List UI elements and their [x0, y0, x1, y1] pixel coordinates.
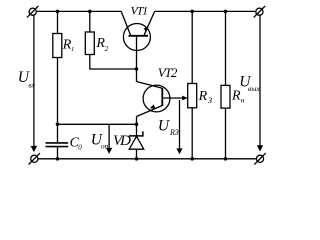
zener diode VD: [129, 124, 144, 159]
node VT1 base / VT2 collector: [135, 67, 139, 71]
svg-text:R: R: [231, 88, 241, 103]
svg-text:VD: VD: [113, 133, 131, 149]
arrow Uвх: [31, 15, 38, 152]
resistor R2: [85, 11, 136, 69]
resistor R3: [188, 11, 197, 158]
svg-text:VT1: VT1: [131, 4, 148, 18]
arrow Uоп: [106, 125, 112, 154]
svg-text:R: R: [198, 89, 208, 104]
node RH bottom: [224, 157, 228, 161]
node VD top: [135, 123, 139, 127]
arrow Uвых: [257, 15, 263, 151]
terminal input - (bottom-left): [29, 153, 40, 164]
arrow UR3: [176, 100, 182, 154]
wire top rail right: [155, 10, 256, 12]
svg-text:н: н: [241, 96, 245, 105]
wire C0 to VD: [58, 123, 137, 125]
node RH top: [224, 10, 228, 14]
node C0 bottom: [56, 157, 60, 161]
svg-text:1: 1: [71, 46, 74, 53]
node VD bottom: [135, 157, 139, 161]
svg-text:VT2: VT2: [158, 65, 178, 80]
resistor R1: [53, 11, 62, 124]
svg-text:3: 3: [207, 95, 212, 105]
terminal input + (top-left): [27, 6, 38, 17]
svg-text:2: 2: [105, 45, 109, 53]
wire VT2 emitter down: [136, 117, 138, 125]
terminal output - (bottom-right): [254, 153, 265, 164]
wire top rail left: [36, 10, 121, 12]
svg-text:вх: вх: [28, 80, 35, 89]
node C0 top: [56, 123, 60, 127]
resistor RH: [221, 11, 230, 158]
node R3 bottom: [190, 157, 194, 161]
terminal output + (top-right): [254, 6, 265, 17]
capacitor C0: [46, 124, 69, 159]
wire bottom rail: [38, 158, 256, 160]
svg-text:0: 0: [78, 144, 82, 152]
svg-text:R3: R3: [169, 128, 179, 137]
node R3 top: [190, 10, 194, 14]
wire VT2 base to R3 wiper: [162, 96, 188, 101]
node R1 top: [56, 10, 60, 14]
svg-text:U: U: [158, 118, 171, 135]
transistor VT1: [121, 11, 154, 69]
node R2 top: [88, 10, 92, 14]
transistor VT2: [137, 85, 170, 116]
svg-text:вых: вых: [248, 84, 260, 93]
wire VT2 collector: [137, 69, 163, 88]
